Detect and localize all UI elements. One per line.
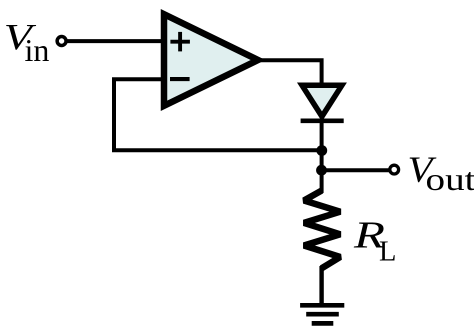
ground [300,305,344,323]
node junction output [316,165,327,176]
output terminal [390,165,399,174]
diode cathode bar [301,118,344,123]
svg-text:in: in [25,32,50,68]
wire output [252,60,322,88]
resistor RL [304,191,340,269]
wire resistor to ground [319,266,323,305]
Vin label [4,17,50,67]
wire feedback [114,79,322,150]
svg-text:L: L [379,236,396,267]
input terminal [57,37,66,46]
wire diode to node [320,121,324,193]
wire input [66,39,162,43]
RL label [353,215,397,268]
op-amp minus pin [170,77,190,81]
op-amp plus pin [170,32,190,52]
svg-text:out: out [426,161,474,197]
diode D1 [302,85,342,116]
node junction feedback [316,145,327,156]
wire Vout [322,168,389,172]
op-amp U1 [164,14,258,106]
Vout label [408,150,474,197]
